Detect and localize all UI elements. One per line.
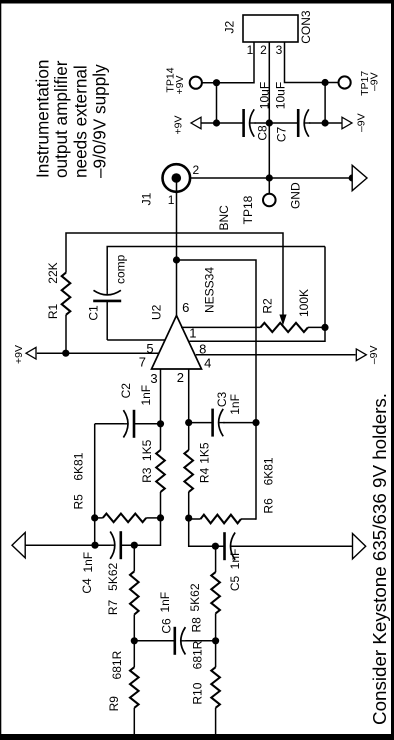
- wire in+ rail lower: [121, 518, 161, 545]
- junction R8/R10/C6: [212, 637, 219, 644]
- svg-text:R7: R7: [106, 600, 120, 616]
- svg-text:U2: U2: [150, 304, 164, 320]
- svg-text:1nF: 1nF: [228, 394, 242, 415]
- wire feedback down-left: [177, 260, 257, 520]
- svg-text:R6: R6: [262, 498, 276, 514]
- svg-text:NESS34: NESS34: [203, 267, 217, 313]
- capacitor C4: [109, 531, 121, 559]
- svg-text:R3: R3: [140, 467, 154, 483]
- wire in- rail lower: [232, 545, 353, 547]
- testpoint TP18: [263, 194, 276, 207]
- svg-text:C5: C5: [228, 576, 242, 592]
- capacitor C2: [122, 410, 134, 438]
- junction -9V rail: [322, 79, 329, 86]
- junction in-/R8: [212, 543, 219, 550]
- svg-text:3: 3: [276, 43, 283, 57]
- svg-text:7: 7: [139, 354, 146, 369]
- wire R8 left lead: [215, 613, 217, 640]
- svg-text:22K: 22K: [46, 262, 60, 283]
- resistor R4: [184, 450, 193, 492]
- wire in- rail upper: [189, 518, 225, 546]
- wire C3 bottom: [223, 422, 256, 424]
- wire R1 left lead: [65, 315, 67, 353]
- power -9V arrow (rails): [342, 117, 352, 129]
- svg-text:R5: R5: [72, 494, 86, 510]
- svg-text:1nF: 1nF: [139, 385, 153, 406]
- svg-text:10uF: 10uF: [274, 82, 288, 109]
- wire C8 to mid: [255, 122, 299, 124]
- svg-text:output amplifier: output amplifier: [51, 60, 71, 178]
- svg-text:GND: GND: [289, 182, 303, 209]
- junction R7/R9/C6: [131, 637, 138, 644]
- resistor R3: [156, 450, 165, 492]
- resistor R9: [130, 667, 139, 708]
- wire C6 bottom: [185, 640, 215, 642]
- junction C4/R7: [131, 542, 138, 549]
- svg-text:C3: C3: [215, 392, 229, 408]
- svg-text:+9V: +9V: [174, 76, 186, 95]
- svg-text:Instrumentation: Instrumentation: [32, 60, 52, 178]
- svg-text:R8: R8: [190, 617, 204, 633]
- connector J1 BNC center pin: [172, 173, 182, 183]
- wire +9V arrow to C8: [200, 122, 244, 124]
- svg-text:R1: R1: [46, 304, 60, 320]
- svg-text:1nF: 1nF: [158, 592, 172, 613]
- testpoint TP14: [190, 77, 202, 89]
- wire R7 right lead: [133, 545, 135, 571]
- wire R6 top lead: [189, 518, 201, 520]
- wire pin4 V- to -9V: [196, 354, 356, 356]
- wire R8 right lead: [215, 546, 217, 572]
- wire J2 pin2 line: [268, 42, 270, 178]
- svg-text:comp: comp: [114, 254, 128, 284]
- wire R10 left lead: [215, 708, 217, 734]
- junction GND arrow: [349, 174, 356, 181]
- capacitor C6: [175, 627, 187, 655]
- wire pin7 V+ to +9V: [37, 352, 159, 354]
- svg-text:–9/0/9V supply: –9/0/9V supply: [89, 64, 109, 178]
- svg-text:C1: C1: [87, 305, 101, 321]
- svg-text:R9: R9: [107, 696, 121, 712]
- resistor R7: [130, 571, 139, 614]
- resistor R5: [103, 514, 146, 523]
- wire R2 bottom lead: [308, 326, 325, 328]
- resistor R10: [211, 667, 220, 708]
- svg-text:C6: C6: [160, 618, 174, 634]
- svg-text:R10: R10: [191, 682, 205, 704]
- svg-text:2: 2: [260, 43, 267, 57]
- junction R1/+9V: [62, 350, 69, 357]
- svg-text:C4: C4: [80, 578, 94, 594]
- junction pin3/C2: [157, 420, 164, 427]
- wire -9V branch: [324, 83, 326, 124]
- wire R9 right lead: [133, 641, 135, 667]
- svg-text:J2: J2: [223, 20, 237, 33]
- wire C2 to pin3 line: [134, 423, 161, 425]
- wire R4 right lead: [188, 423, 190, 450]
- power -9V arrow (op-amp): [356, 349, 366, 361]
- border left bar: [0, 734, 394, 740]
- svg-text:6K81: 6K81: [72, 452, 86, 480]
- junction R3/R5/in+: [157, 514, 164, 521]
- input arrow in+: [12, 533, 25, 558]
- border right bar: [0, 0, 394, 4]
- svg-text:C7: C7: [275, 127, 289, 143]
- svg-text:TP18: TP18: [241, 195, 255, 224]
- wire +9V branch: [216, 83, 218, 123]
- junction mid caps: [266, 119, 273, 126]
- wire branch to R5/C2: [94, 424, 96, 545]
- junction R4/R6/in-: [185, 515, 192, 522]
- ground GND arrow: [352, 165, 367, 190]
- junction C3/feedback: [252, 419, 259, 426]
- border bottom bar: [391, 0, 394, 740]
- svg-text:5K62: 5K62: [106, 562, 120, 590]
- wire R5 top lead: [95, 517, 103, 519]
- wire R9 left lead: [133, 708, 135, 734]
- junction C7 bottom: [322, 119, 329, 126]
- connector J1 BNC outer: [163, 164, 191, 192]
- wire C1 right to pin8 rail: [107, 247, 325, 291]
- wire BNC pin1 stub: [176, 178, 178, 194]
- svg-text:C2: C2: [119, 383, 133, 399]
- svg-text:2: 2: [193, 163, 200, 177]
- wire pin8 line: [189, 247, 325, 342]
- svg-text:2: 2: [177, 370, 184, 385]
- svg-text:needs external: needs external: [71, 65, 91, 178]
- input arrow in-: [353, 534, 366, 559]
- junction in+/R5: [91, 542, 98, 549]
- wire output pin6: [176, 178, 178, 316]
- svg-text:5K62: 5K62: [188, 583, 202, 611]
- svg-text:1K5: 1K5: [198, 442, 212, 464]
- resistor R2 (pot): [260, 323, 308, 332]
- wire R1 right lead + down to wiper line: [66, 233, 283, 316]
- wire pin5 up: [107, 339, 164, 341]
- wire rail TP14 to J2 pin1: [202, 42, 254, 83]
- capacitor C7 10uF: [298, 109, 310, 137]
- svg-text:6: 6: [182, 300, 189, 315]
- wire R10 right lead: [215, 641, 217, 667]
- wire in+ rail upper: [25, 544, 110, 546]
- wire J2 pin3 to TP17: [285, 42, 339, 83]
- svg-text:+9V: +9V: [173, 116, 185, 135]
- note: instrumentation amplifier title: [32, 60, 109, 178]
- junction R5 top: [91, 514, 98, 521]
- junction output node: [173, 256, 180, 263]
- wire C6 top: [134, 640, 175, 642]
- svg-text:100K: 100K: [297, 289, 311, 317]
- wire R6 bottom lead: [241, 518, 256, 520]
- svg-text:1: 1: [247, 43, 254, 57]
- power +9V arrow (rails): [191, 117, 201, 129]
- svg-text:–9V: –9V: [369, 72, 381, 91]
- wire C3 top: [189, 422, 213, 424]
- wire R3 left lead: [160, 492, 162, 518]
- junction R2/pin8 line: [321, 324, 328, 331]
- junction TP18/pin2: [266, 174, 273, 181]
- wire C7 to -9V: [309, 122, 342, 124]
- resistor R8: [211, 572, 220, 613]
- svg-text:–9V: –9V: [368, 345, 380, 364]
- svg-text:J1: J1: [140, 192, 154, 205]
- svg-text:1: 1: [168, 193, 175, 207]
- capacitor C3: [213, 409, 225, 437]
- svg-text:681R: 681R: [110, 650, 124, 679]
- wire pin2 line: [188, 369, 190, 423]
- svg-text:6K81: 6K81: [262, 457, 276, 485]
- power +9V arrow (op-amp): [26, 347, 36, 359]
- op-amp U2 triangle: [152, 316, 202, 370]
- wire C1 left: [106, 301, 108, 340]
- svg-text:1nF: 1nF: [81, 552, 95, 573]
- svg-text:Consider Keystone 635/636 9V h: Consider Keystone 635/636 9V holders.: [369, 393, 390, 725]
- wire C2 drop: [95, 423, 124, 425]
- connector J2 body: [243, 15, 298, 42]
- wire BNC shield to GND: [190, 177, 352, 179]
- resistor R6: [201, 515, 242, 524]
- wire R5 bottom lead: [146, 517, 160, 519]
- svg-text:C8: C8: [256, 125, 270, 141]
- resistor R1: [62, 273, 71, 315]
- svg-text:R4: R4: [198, 467, 212, 483]
- capacitor C8 10uF: [244, 109, 256, 137]
- svg-text:–9V: –9V: [356, 113, 368, 132]
- junction pin2/C3: [185, 419, 192, 426]
- svg-text:3: 3: [150, 371, 157, 386]
- svg-text:4: 4: [204, 355, 211, 370]
- svg-text:1nF: 1nF: [228, 549, 242, 570]
- wire R3 right lead: [160, 424, 162, 450]
- wire R4 left lead: [188, 492, 190, 518]
- junction +9V rail: [213, 79, 220, 86]
- wire pin1 to R2: [181, 326, 260, 328]
- svg-text:CON3: CON3: [299, 10, 313, 44]
- svg-text:681R: 681R: [191, 640, 205, 669]
- wire R7 left lead: [133, 615, 135, 641]
- capacitor C5: [225, 532, 237, 560]
- junction C8 top: [213, 119, 220, 126]
- border top line: [0, 0, 1, 740]
- svg-text:1K5: 1K5: [140, 439, 154, 461]
- svg-text:+9V: +9V: [13, 345, 25, 364]
- wire pin3 line: [160, 369, 162, 424]
- svg-text:BNC: BNC: [217, 205, 231, 231]
- svg-text:R2: R2: [261, 298, 275, 314]
- capacitor C1: [93, 289, 121, 301]
- testpoint TP17: [339, 76, 351, 88]
- pot R2 wiper arrow: [280, 315, 286, 324]
- wire TP18 stub: [268, 178, 270, 194]
